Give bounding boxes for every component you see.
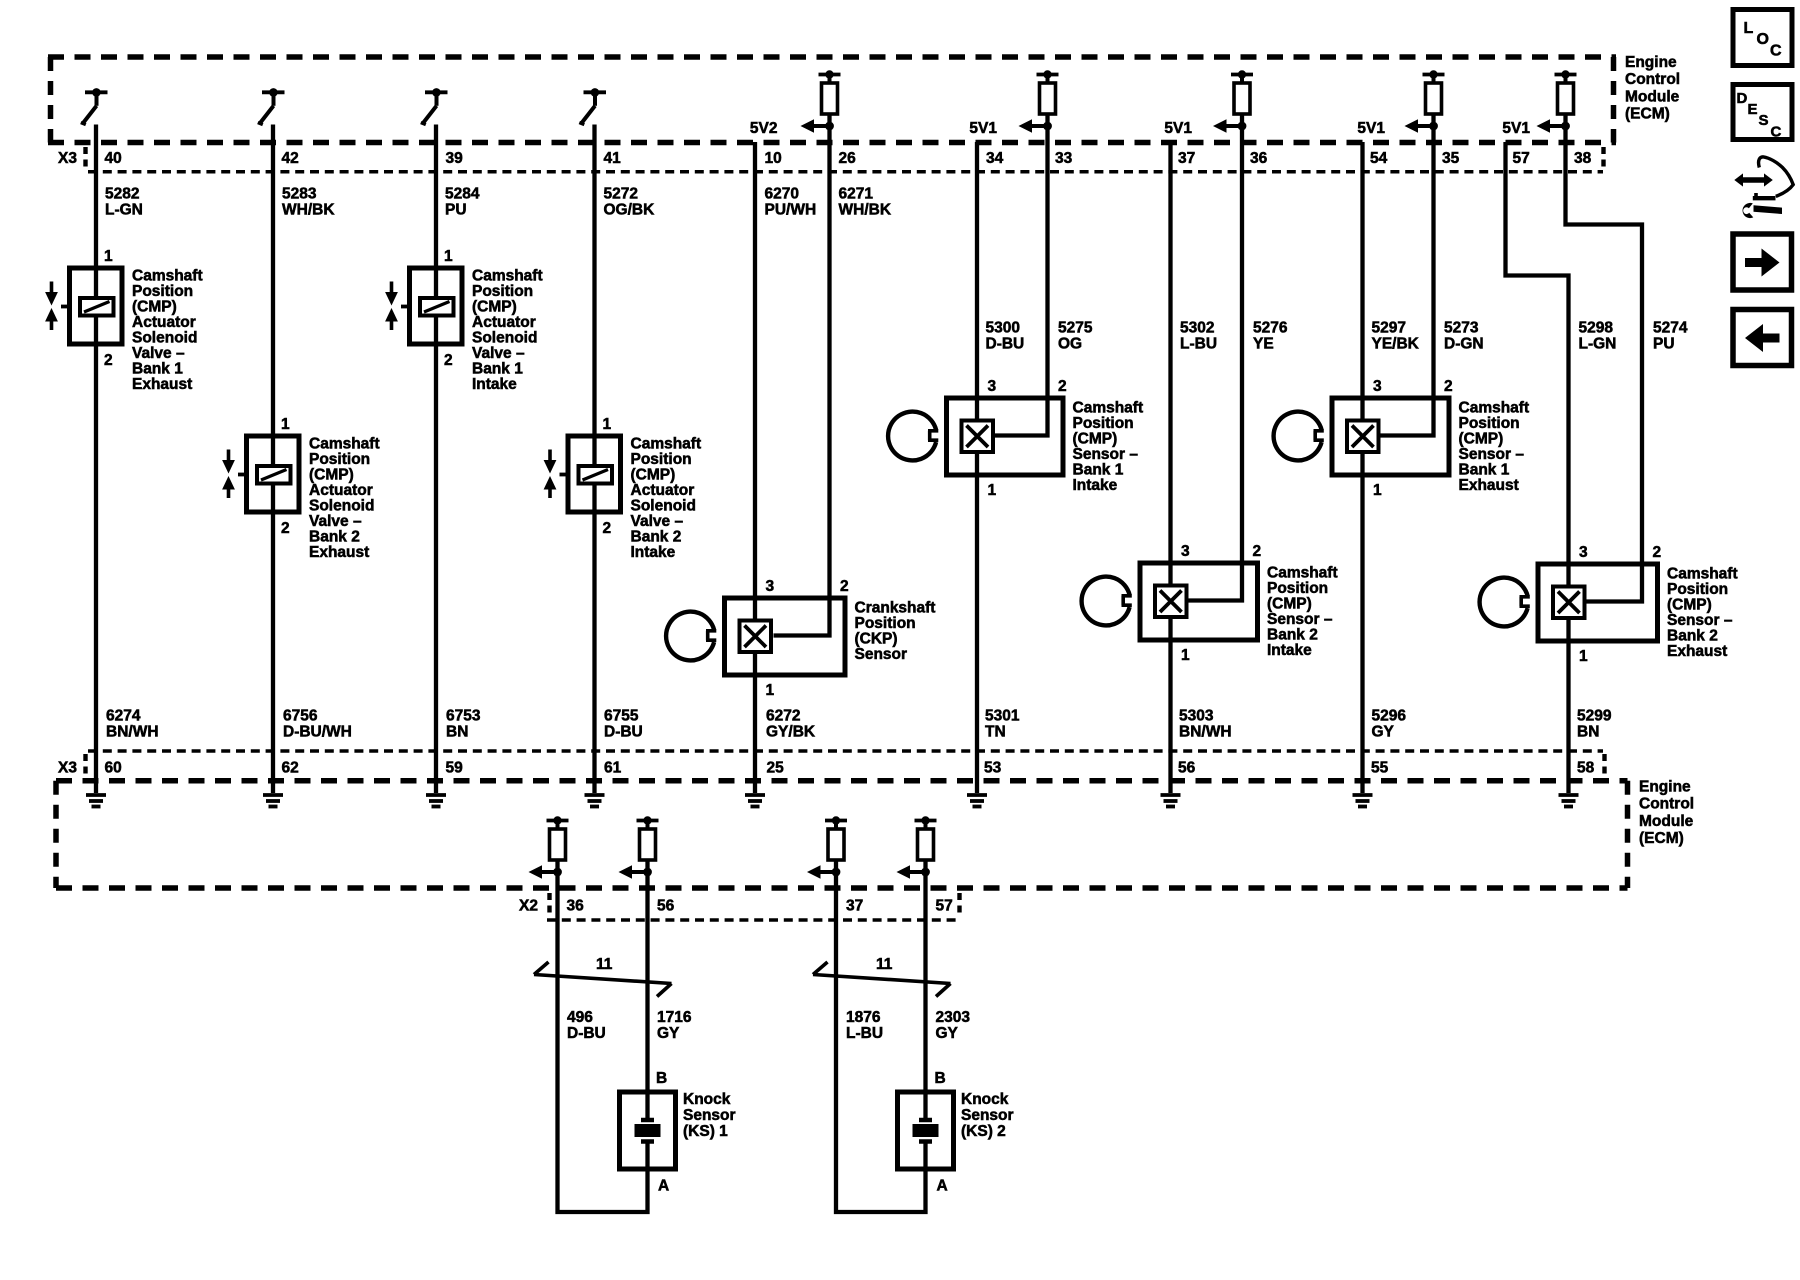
svg-text:1: 1: [444, 248, 453, 265]
svg-text:Exhaust: Exhaust: [309, 544, 369, 561]
svg-text:Knock: Knock: [961, 1091, 1009, 1108]
svg-text:GY: GY: [657, 1025, 680, 1042]
svg-text:Sensor –: Sensor –: [1267, 611, 1333, 628]
svg-text:11: 11: [596, 956, 613, 973]
wire label 5302 L-BU: [1180, 320, 1217, 353]
svg-text:37: 37: [846, 898, 863, 915]
wire label 5299 BN: [1577, 708, 1612, 741]
svg-text:6271: 6271: [839, 186, 874, 203]
ECM top label: [1625, 54, 1680, 123]
ground pin 25: [745, 795, 765, 807]
svg-text:5V1: 5V1: [969, 120, 997, 137]
wire 5300 D-BU (pin 34 to CMP B1 intake pin 3): [975, 142, 979, 793]
wire label 5303 BN/WH: [1179, 708, 1232, 741]
wire 496 D-BU (X2 pin 36 to KS1 pin A): [558, 872, 648, 1212]
svg-text:Sensor: Sensor: [855, 646, 908, 663]
svg-text:Engine: Engine: [1639, 779, 1691, 796]
ECM top dashed box outline: [48, 57, 1616, 143]
pull-up resistor at pin X2-36: [547, 816, 569, 872]
pull-up resistor at pin X2-56: [637, 816, 659, 872]
svg-text:BN/WH: BN/WH: [106, 724, 159, 741]
svg-text:Camshaft: Camshaft: [1267, 565, 1338, 582]
reference voltage arrow at KS1 low ref: [529, 865, 562, 879]
svg-text:41: 41: [604, 150, 622, 167]
svg-text:25: 25: [767, 760, 785, 777]
CMP actuator solenoid valve B2-intake (Bank 2 Intake) box: [568, 436, 621, 512]
wire label 1716 GY: [657, 1009, 692, 1042]
svg-text:Module: Module: [1625, 88, 1680, 105]
wire label 5298 L-GN: [1579, 320, 1617, 353]
svg-text:1716: 1716: [657, 1009, 692, 1026]
svg-text:1876: 1876: [846, 1009, 881, 1026]
CKP sensing element (X symbol): [740, 621, 772, 653]
svg-text:2: 2: [281, 520, 290, 537]
svg-text:3: 3: [988, 378, 997, 395]
svg-text:OG/BK: OG/BK: [604, 202, 656, 219]
svg-text:5301: 5301: [985, 708, 1020, 725]
svg-text:GY: GY: [1372, 724, 1395, 741]
CMP-B2-exhaust label: [1667, 566, 1738, 661]
svg-text:5296: 5296: [1372, 708, 1407, 725]
svg-text:1: 1: [1579, 648, 1588, 665]
svg-text:Bank 1: Bank 1: [1459, 462, 1510, 479]
svg-text:Intake: Intake: [472, 376, 517, 393]
wire 5273 D-GN (pin 35 to CMP B1 exhaust pin 2): [1378, 126, 1434, 436]
svg-text:1: 1: [988, 482, 997, 499]
pull-up resistor at pin X2-57: [915, 816, 937, 872]
svg-text:Bank 1: Bank 1: [1073, 462, 1124, 479]
wire label 1876 L-BU: [846, 1009, 883, 1042]
svg-text:55: 55: [1371, 760, 1389, 777]
svg-text:Bank 2: Bank 2: [309, 529, 360, 546]
label B1-intake: [472, 268, 543, 394]
reference voltage arrow at 5V1 pin33: [1019, 119, 1052, 133]
wire label 6271 WH/BK: [839, 186, 892, 219]
CKP label: [855, 600, 936, 664]
wire label 496 D-BU: [567, 1009, 606, 1042]
svg-text:D-GN: D-GN: [1444, 336, 1484, 353]
svg-text:3: 3: [1373, 378, 1382, 395]
svg-text:Camshaft: Camshaft: [1667, 566, 1738, 583]
svg-text:5274: 5274: [1653, 320, 1688, 337]
svg-text:Valve –: Valve –: [132, 345, 185, 362]
svg-text:5303: 5303: [1179, 708, 1214, 725]
svg-text:Position: Position: [309, 451, 370, 468]
svg-text:2: 2: [1253, 543, 1262, 560]
svg-text:Camshaft: Camshaft: [132, 268, 203, 285]
svg-text:Position: Position: [132, 283, 193, 300]
svg-text:Bank 2: Bank 2: [1667, 628, 1718, 645]
svg-text:60: 60: [105, 760, 122, 777]
wire label 6756 D-BU/WH: [283, 708, 352, 741]
CMP-B1-intake sensing element (X symbol): [962, 421, 994, 453]
svg-text:5284: 5284: [445, 186, 480, 203]
svg-text:2303: 2303: [936, 1009, 971, 1026]
solenoid coil element B1-exhaust: [80, 298, 114, 316]
svg-text:(CMP): (CMP): [1667, 597, 1712, 614]
svg-text:YE: YE: [1253, 336, 1274, 353]
svg-text:Camshaft: Camshaft: [309, 436, 380, 453]
svg-text:Exhaust: Exhaust: [1459, 477, 1519, 494]
svg-text:D-BU: D-BU: [567, 1025, 606, 1042]
KS1 piezo element: [635, 1120, 661, 1142]
ground pin 62: [263, 795, 283, 807]
svg-text:BN: BN: [1577, 724, 1599, 741]
svg-text:C: C: [1770, 43, 1782, 60]
forward arrow legend box: [1733, 234, 1792, 290]
svg-text:1: 1: [104, 248, 113, 265]
svg-text:1: 1: [1181, 647, 1190, 664]
reference voltage arrow at 5V1 pin36: [1213, 119, 1246, 133]
ground pin 56: [1161, 795, 1181, 807]
wire label 5297 YE/BK: [1372, 320, 1420, 353]
svg-text:5272: 5272: [604, 186, 638, 203]
svg-text:WH/BK: WH/BK: [282, 202, 335, 219]
svg-text:1: 1: [1373, 482, 1382, 499]
wire 5283 WH/BK (pin 42 to solenoid B2 exhaust): [271, 125, 275, 794]
svg-text:61: 61: [604, 760, 622, 777]
svg-text:5276: 5276: [1253, 320, 1288, 337]
wire 5298 L-GN (pin 57 to CMP B2 exhaust pin 3): [1506, 142, 1569, 793]
reference voltage arrow at KS1 signal: [619, 865, 652, 879]
knock sensor KS1 label: [683, 1091, 736, 1140]
svg-text:11: 11: [876, 956, 893, 973]
solenoid coil element B2-exhaust: [257, 466, 291, 484]
svg-text:B: B: [656, 1070, 667, 1087]
svg-text:L: L: [1744, 20, 1754, 37]
svg-text:D-BU: D-BU: [604, 724, 643, 741]
valve actuator symbol B2-intake: [544, 450, 568, 499]
wire label 6755 D-BU: [604, 708, 643, 741]
svg-text:X3: X3: [58, 150, 77, 167]
wire label 5301 TN: [985, 708, 1020, 741]
svg-text:56: 56: [657, 898, 675, 915]
svg-text:(KS) 2: (KS) 2: [961, 1123, 1006, 1140]
svg-text:59: 59: [446, 760, 464, 777]
svg-text:6753: 6753: [446, 708, 481, 725]
svg-text:Solenoid: Solenoid: [309, 498, 374, 515]
ground pin 53: [967, 795, 987, 807]
svg-text:TN: TN: [985, 724, 1006, 741]
CMP-B1-exhaust sensor box: [1332, 398, 1449, 475]
svg-text:6270: 6270: [765, 186, 799, 203]
wire 5275 OG (pin 33 to CMP B1 intake pin 2): [992, 126, 1048, 436]
svg-text:5302: 5302: [1180, 320, 1214, 337]
svg-text:Camshaft: Camshaft: [472, 268, 543, 285]
svg-text:38: 38: [1574, 150, 1592, 167]
svg-text:L-BU: L-BU: [846, 1025, 883, 1042]
svg-text:Intake: Intake: [1267, 642, 1312, 659]
CMP-B2-exhaust sensor box: [1538, 564, 1658, 641]
svg-text:Position: Position: [1667, 581, 1728, 598]
svg-text:(CMP): (CMP): [309, 467, 354, 484]
valve actuator symbol B2-exhaust: [222, 450, 246, 499]
CMP-B2-intake label: [1267, 565, 1338, 660]
CMP actuator solenoid valve B1-exhaust (Bank 1 Exhaust) box: [70, 268, 123, 344]
svg-text:34: 34: [986, 150, 1004, 167]
harness navigation icon: [1734, 157, 1793, 218]
svg-text:Sensor: Sensor: [683, 1107, 736, 1124]
wire 5272 OG/BK (pin 41 to solenoid B2 intake): [592, 125, 596, 794]
reference voltage arrow at 5V2: [801, 119, 834, 133]
wire 5276 YE (pin 36 to CMP B2 intake pin 2): [1187, 126, 1242, 601]
svg-text:6755: 6755: [604, 708, 639, 725]
svg-text:37: 37: [1178, 150, 1195, 167]
wire 2303 GY (X2 pin 57 to KS2 pin B): [923, 872, 927, 1120]
svg-text:5V1: 5V1: [1502, 120, 1530, 137]
svg-text:Actuator: Actuator: [309, 482, 373, 499]
CMP-B1-intake label: [1073, 400, 1144, 495]
svg-text:54: 54: [1370, 150, 1388, 167]
pull-up resistor at pin X2-37: [825, 816, 847, 872]
ECM low-side driver for pin 40: [81, 88, 108, 125]
wire label 5273 D-GN: [1444, 320, 1484, 353]
label B1-exhaust: [132, 268, 203, 394]
CMP-B1-intake connector circle symbol: [888, 412, 938, 461]
valve actuator symbol B1-exhaust: [45, 282, 69, 331]
wire 5297 YE/BK (pin 54 to CMP B1 exhaust pin 3): [1360, 142, 1364, 793]
svg-text:(CMP): (CMP): [1073, 431, 1118, 448]
svg-text:E: E: [1748, 101, 1758, 118]
CMP-B1-exhaust connector circle symbol: [1274, 412, 1324, 461]
svg-text:Control: Control: [1625, 71, 1680, 88]
twisted-pair indicator 11 (KS2 wires): [813, 962, 951, 997]
wire label 5282 L-GN: [105, 186, 143, 219]
label B2-exhaust: [309, 436, 380, 562]
svg-text:53: 53: [984, 760, 1002, 777]
CMP-B1-intake sensor box: [947, 398, 1064, 475]
svg-text:2: 2: [840, 578, 849, 595]
svg-text:(ECM): (ECM): [1639, 830, 1684, 847]
svg-text:1: 1: [281, 416, 290, 433]
svg-text:Intake: Intake: [631, 544, 676, 561]
ECM low-side driver for pin 41: [579, 88, 606, 125]
svg-text:D-BU: D-BU: [986, 336, 1025, 353]
wire 1876 L-BU (X2 pin 37 to KS2 pin A): [836, 872, 926, 1212]
svg-text:57: 57: [936, 898, 953, 915]
twisted-pair indicator 11 (KS1 wires): [534, 962, 672, 997]
svg-text:X3: X3: [58, 760, 77, 777]
svg-text:Bank 2: Bank 2: [631, 529, 682, 546]
CMP-B2-intake sensor box: [1140, 563, 1258, 640]
svg-text:5299: 5299: [1577, 708, 1612, 725]
ground pin 60: [86, 795, 106, 807]
svg-text:A: A: [658, 1178, 669, 1195]
CMP-B2-intake sensing element (X symbol): [1155, 586, 1187, 618]
CMP-B1-exhaust label: [1459, 400, 1530, 495]
svg-text:Sensor –: Sensor –: [1459, 446, 1525, 463]
pull-up resistor at pin 33: [1037, 70, 1059, 126]
svg-text:5297: 5297: [1372, 320, 1406, 337]
svg-text:Valve –: Valve –: [472, 345, 525, 362]
svg-text:Position: Position: [855, 615, 916, 632]
svg-text:58: 58: [1577, 760, 1595, 777]
solenoid coil element B1-intake: [420, 298, 454, 316]
svg-text:5V1: 5V1: [1164, 120, 1192, 137]
CMP-B2-exhaust connector circle symbol: [1480, 578, 1530, 627]
wire label 5274 PU: [1653, 320, 1688, 353]
svg-text:OG: OG: [1058, 336, 1082, 353]
CKP sensor box: [725, 598, 846, 675]
svg-text:Sensor –: Sensor –: [1667, 612, 1733, 629]
svg-text:WH/BK: WH/BK: [839, 202, 892, 219]
svg-text:62: 62: [282, 760, 299, 777]
svg-text:Valve –: Valve –: [309, 513, 362, 530]
svg-text:(CMP): (CMP): [1267, 596, 1312, 613]
svg-text:Position: Position: [472, 283, 533, 300]
svg-text:Engine: Engine: [1625, 54, 1677, 71]
svg-text:D-BU/WH: D-BU/WH: [283, 724, 352, 741]
CMP actuator solenoid valve B2-exhaust (Bank 2 Exhaust) box: [247, 436, 300, 512]
wire label 5296 GY: [1372, 708, 1407, 741]
wire 6270 PU/WH (pin 10, 5V2 to CKP pin 3): [753, 142, 757, 793]
svg-text:B: B: [935, 1070, 946, 1087]
svg-text:PU: PU: [445, 202, 467, 219]
CKP connector circle symbol: [666, 612, 716, 661]
svg-text:PU/WH: PU/WH: [765, 202, 817, 219]
svg-text:Sensor: Sensor: [961, 1107, 1014, 1124]
svg-text:2: 2: [1653, 544, 1662, 561]
wire label 5300 D-BU: [986, 320, 1025, 353]
wire label 5284 PU: [445, 186, 480, 219]
svg-text:35: 35: [1442, 150, 1460, 167]
CMP actuator solenoid valve B1-intake (Bank 1 Intake) box: [410, 268, 463, 344]
svg-text:3: 3: [766, 578, 775, 595]
svg-text:6274: 6274: [106, 708, 141, 725]
knock sensor KS2 box: [898, 1092, 954, 1169]
svg-text:40: 40: [105, 150, 122, 167]
reference voltage arrow at 5V1 pin38: [1537, 119, 1570, 133]
svg-text:YE/BK: YE/BK: [1372, 336, 1420, 353]
back arrow legend box: [1733, 310, 1792, 366]
svg-text:5298: 5298: [1579, 320, 1614, 337]
svg-text:33: 33: [1055, 150, 1073, 167]
svg-text:(CMP): (CMP): [631, 467, 676, 484]
svg-text:3: 3: [1579, 544, 1588, 561]
pull-up resistor at pin 26: [819, 70, 841, 126]
svg-text:Control: Control: [1639, 796, 1694, 813]
svg-text:A: A: [937, 1178, 948, 1195]
svg-text:Exhaust: Exhaust: [1667, 643, 1727, 660]
svg-text:26: 26: [839, 150, 857, 167]
wire label 2303 GY: [936, 1009, 971, 1042]
valve actuator symbol B1-intake: [385, 282, 409, 331]
svg-text:Solenoid: Solenoid: [132, 330, 197, 347]
svg-text:6756: 6756: [283, 708, 318, 725]
svg-text:3: 3: [1181, 543, 1190, 560]
CMP-B2-intake connector circle symbol: [1082, 577, 1132, 626]
svg-text:Module: Module: [1639, 813, 1694, 830]
svg-text:Camshaft: Camshaft: [1459, 400, 1530, 417]
wire label 5283 WH/BK: [282, 186, 335, 219]
DESC legend box: [1733, 85, 1792, 141]
wire 5302 L-BU (pin 37 to CMP B2 intake pin 3): [1168, 142, 1172, 793]
wire 1716 GY (X2 pin 56 to KS1 pin B): [645, 872, 649, 1120]
svg-text:Sensor –: Sensor –: [1073, 446, 1139, 463]
CMP-B2-exhaust sensing element (X symbol): [1553, 587, 1585, 619]
svg-text:O: O: [1757, 31, 1769, 48]
svg-text:Solenoid: Solenoid: [472, 330, 537, 347]
svg-text:Position: Position: [631, 451, 692, 468]
svg-text:Crankshaft: Crankshaft: [855, 600, 936, 617]
svg-text:5282: 5282: [105, 186, 139, 203]
LOC legend box: [1733, 10, 1792, 66]
wire label 5276 YE: [1253, 320, 1288, 353]
wire label 6270 PU/WH: [765, 186, 817, 219]
svg-text:Camshaft: Camshaft: [631, 436, 702, 453]
svg-text:Camshaft: Camshaft: [1073, 400, 1144, 417]
svg-text:42: 42: [282, 150, 299, 167]
reference voltage arrow at 5V1 pin35: [1405, 119, 1438, 133]
svg-text:496: 496: [567, 1009, 593, 1026]
svg-text:(CKP): (CKP): [855, 631, 898, 648]
svg-text:Bank 2: Bank 2: [1267, 627, 1318, 644]
svg-text:Exhaust: Exhaust: [132, 376, 192, 393]
svg-text:Solenoid: Solenoid: [631, 498, 696, 515]
svg-text:(CMP): (CMP): [1459, 431, 1504, 448]
svg-text:2: 2: [1058, 378, 1067, 395]
svg-text:5273: 5273: [1444, 320, 1479, 337]
svg-text:C: C: [1771, 124, 1782, 141]
svg-text:56: 56: [1178, 760, 1196, 777]
pull-up resistor at pin 35: [1423, 70, 1445, 126]
ground pin 58: [1559, 795, 1579, 807]
svg-text:X2: X2: [519, 898, 538, 915]
wire 5282 L-GN (pin 40 to solenoid B1 exhaust): [94, 125, 98, 794]
wire label 6753 BN: [446, 708, 481, 741]
svg-text:36: 36: [1250, 150, 1268, 167]
svg-text:Position: Position: [1073, 415, 1134, 432]
svg-text:1: 1: [766, 682, 775, 699]
ground pin 55: [1353, 795, 1373, 807]
svg-text:5283: 5283: [282, 186, 317, 203]
solenoid coil element B2-intake: [579, 466, 613, 484]
ECM low-side driver for pin 42: [258, 88, 285, 125]
connector X2 dashed line: [547, 893, 961, 920]
pull-up resistor at pin 36: [1231, 70, 1253, 126]
svg-text:(ECM): (ECM): [1625, 106, 1670, 123]
svg-text:BN: BN: [446, 724, 468, 741]
svg-text:Actuator: Actuator: [472, 314, 536, 331]
wire 5274 PU (pin 38 to CMP B2 exhaust pin 2): [1566, 126, 1643, 602]
svg-text:2: 2: [603, 520, 612, 537]
ECM low-side driver for pin 39: [421, 88, 448, 125]
svg-text:2: 2: [1444, 378, 1453, 395]
svg-text:(KS) 1: (KS) 1: [683, 1123, 728, 1140]
svg-text:1: 1: [603, 416, 612, 433]
CMP-B1-exhaust sensing element (X symbol): [1347, 421, 1379, 453]
svg-text:5V2: 5V2: [750, 120, 778, 137]
svg-text:Position: Position: [1267, 580, 1328, 597]
svg-text:L-BU: L-BU: [1180, 336, 1217, 353]
svg-text:L-GN: L-GN: [1579, 336, 1617, 353]
pull-up resistor at pin 38: [1555, 70, 1577, 126]
svg-text:Bank 1: Bank 1: [472, 361, 523, 378]
wire 6271 WH/BK (pin 26 to CKP pin 2): [774, 126, 830, 636]
label B2-intake: [631, 436, 702, 562]
svg-text:Bank 1: Bank 1: [132, 361, 183, 378]
svg-text:GY/BK: GY/BK: [766, 724, 816, 741]
svg-text:10: 10: [765, 150, 782, 167]
svg-text:Intake: Intake: [1073, 477, 1118, 494]
svg-text:Actuator: Actuator: [631, 482, 695, 499]
svg-text:39: 39: [446, 150, 464, 167]
svg-text:(CMP): (CMP): [472, 299, 517, 316]
svg-text:2: 2: [104, 352, 113, 369]
knock sensor KS1 box: [620, 1092, 676, 1169]
svg-text:S: S: [1759, 112, 1769, 129]
svg-text:Valve –: Valve –: [631, 513, 684, 530]
